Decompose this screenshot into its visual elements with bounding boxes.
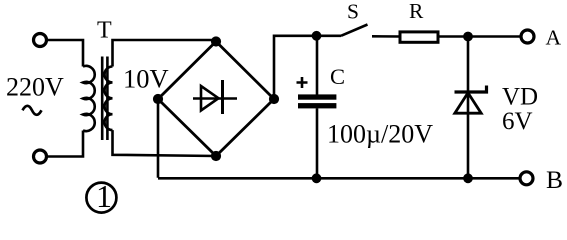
terminal A: [521, 30, 534, 43]
svg-text:6V: 6V: [502, 108, 533, 135]
wire zener vertical: [467, 37, 470, 179]
svg-text:100µ/20V: 100µ/20V: [327, 120, 433, 149]
transformer T primary winding: [83, 66, 95, 131]
capacitor C plate top: [298, 94, 336, 99]
bridge inner diode triangle: [201, 86, 219, 111]
node top junction at capacitor: [312, 31, 322, 41]
wire: [47, 40, 83, 67]
svg-text:B: B: [546, 165, 563, 194]
node bridge right: [269, 94, 279, 104]
wire bridge right corner up and right to switch: [274, 36, 341, 99]
bridge inner diode wire: [193, 97, 237, 99]
node bridge bottom: [211, 151, 221, 161]
wire secondary bottom to bridge bottom: [113, 130, 217, 156]
svg-text:R: R: [409, 0, 424, 23]
zener diode VD cathode bar: [455, 86, 487, 93]
wire resistor to terminal A: [440, 35, 521, 38]
wire capacitor bottom lead: [316, 108, 319, 178]
node bottom junction at capacitor: [312, 173, 322, 183]
node top junction at zener: [463, 32, 473, 42]
wire bridge left corner down to bottom rail: [157, 99, 160, 178]
terminal B: [520, 172, 533, 185]
wire capacitor top lead: [316, 36, 319, 95]
svg-text:VD: VD: [502, 84, 538, 111]
node bridge left: [153, 94, 163, 104]
svg-text:A: A: [546, 25, 562, 49]
terminal input bottom: [34, 150, 47, 163]
switch S blade: [341, 25, 368, 36]
node bottom junction at zener: [463, 173, 473, 183]
svg-text:10V: 10V: [123, 64, 169, 94]
svg-text:1: 1: [96, 178, 112, 214]
wire bottom rail: [158, 177, 520, 180]
bridge inner diode cathode bar: [221, 80, 224, 114]
wire secondary top to bridge top: [113, 40, 217, 67]
zener diode VD triangle: [455, 93, 481, 113]
resistor R: [400, 32, 438, 42]
transformer core: [101, 57, 104, 141]
wire switch contact to resistor: [372, 35, 400, 38]
node bridge top: [211, 36, 221, 46]
svg-text:220V: 220V: [6, 73, 64, 102]
svg-text:C: C: [330, 64, 345, 89]
capacitor plus sign: [297, 77, 308, 88]
AC tilde symbol: [23, 106, 42, 115]
figure number circle 1: [86, 183, 116, 213]
wire: [47, 131, 83, 157]
terminal input top: [34, 34, 47, 47]
svg-text:S: S: [347, 0, 359, 24]
capacitor C plate bottom: [298, 103, 336, 108]
bridge rectifier diamond: [158, 42, 274, 157]
svg-text:T: T: [97, 18, 112, 44]
transformer T secondary winding: [105, 67, 113, 131]
